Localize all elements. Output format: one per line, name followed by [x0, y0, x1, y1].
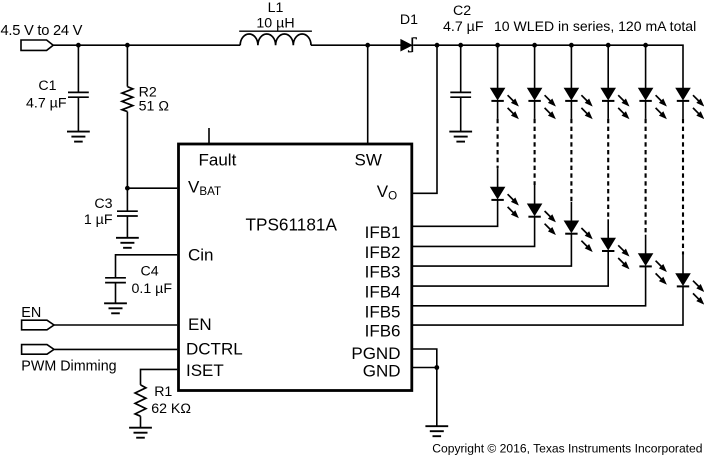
wire top rail left (VIN to L1): [53, 44, 240, 46]
wire string 1 below upper LED: [497, 101, 499, 119]
net VIN input connector: [21, 40, 53, 50]
capacitor C3: [117, 211, 138, 216]
wire top rail mid (L1 to D1): [311, 44, 401, 46]
LED string 2 upper: [528, 88, 555, 118]
junction WLED string 2: [532, 43, 537, 48]
wire string 2 dashed (hidden LEDs): [534, 119, 536, 185]
wire string 4 to IFB4: [412, 251, 608, 286]
LED string 5 lower: [639, 254, 666, 284]
wire string 6 above lower LED: [682, 255, 684, 274]
wire PGND pin: [412, 349, 437, 368]
capacitor C2: [450, 92, 471, 97]
junction VO tap: [435, 43, 440, 48]
LED string 3 upper: [565, 88, 592, 118]
svg-text:IFB3: IFB3: [365, 263, 401, 282]
junction WLED string 5: [643, 43, 648, 48]
op-amp U1 TPS61181A body: [179, 144, 412, 391]
wire string 6 dashed (hidden LEDs): [682, 119, 684, 255]
wire string 4 above lower LED: [607, 219, 609, 238]
svg-text:PWM Dimming: PWM Dimming: [21, 358, 116, 374]
wire string 2 from rail: [534, 45, 536, 88]
resistor R1: [135, 385, 146, 416]
wire string 3 above lower LED: [570, 202, 572, 221]
wire string 3 to IFB3: [412, 234, 572, 266]
wire C3 branch: [126, 188, 128, 211]
wire string 2 to IFB2: [412, 217, 535, 247]
ground (R1): [129, 428, 152, 438]
wire C2 branch: [460, 45, 462, 92]
svg-text:DCTRL: DCTRL: [186, 339, 243, 358]
svg-text:4.7 µF: 4.7 µF: [443, 19, 484, 35]
LED string 1 lower: [491, 187, 518, 217]
junction WLED string 3: [569, 43, 574, 48]
LED string 6 lower: [676, 274, 703, 304]
wire string 1 from rail: [497, 45, 499, 88]
wire top rail right (D1 to WLED strings) with corner down: [413, 45, 683, 88]
LED string 4 upper: [601, 88, 628, 118]
wire VBAT pin: [127, 187, 177, 189]
svg-text:C1: C1: [38, 78, 56, 94]
wire C2 to ground: [460, 97, 462, 131]
svg-text:GND: GND: [363, 361, 401, 380]
svg-text:PGND: PGND: [351, 344, 400, 363]
wire DCTRL pin: [54, 348, 177, 350]
svg-text:D1: D1: [400, 12, 418, 28]
wire ISET pin: [141, 369, 178, 385]
svg-text:ISET: ISET: [186, 361, 224, 380]
wire string 2 above lower LED: [534, 185, 536, 204]
ground (PGND/GND): [425, 426, 448, 436]
svg-text:10 WLED in series, 120 mA tota: 10 WLED in series, 120 mA total: [494, 18, 696, 34]
svg-text:62 KΩ: 62 KΩ: [151, 401, 191, 417]
inductor L1: [239, 31, 312, 45]
wire string 5 dashed (hidden LEDs): [645, 119, 647, 235]
junction SW tap: [365, 43, 370, 48]
svg-text:C2: C2: [453, 3, 471, 19]
resistor R2: [122, 87, 133, 112]
wire string 3 dashed (hidden LEDs): [570, 119, 572, 202]
wire SW pin to rail: [367, 45, 369, 144]
svg-text:Copyright © 2016, Texas Instru: Copyright © 2016, Texas Instruments Inco…: [432, 441, 702, 455]
svg-text:IFB5: IFB5: [365, 302, 401, 321]
junction VIN/C1: [76, 43, 81, 48]
junction WLED string 4: [606, 43, 611, 48]
LED string 6 upper: [676, 88, 703, 118]
pin Fault stub: [208, 128, 210, 144]
svg-text:4.5 V to 24 V: 4.5 V to 24 V: [1, 23, 83, 39]
junction C2 tap: [458, 43, 463, 48]
wire string 5 above lower LED: [645, 235, 647, 254]
svg-text:R1: R1: [154, 384, 172, 400]
wire R2 to VBAT node: [126, 112, 128, 189]
wire string 4 dashed (hidden LEDs): [607, 119, 609, 220]
svg-text:EN: EN: [188, 315, 212, 334]
wire string 1 dashed (hidden LEDs): [497, 119, 499, 168]
wire string 2 below upper LED: [534, 101, 536, 119]
LED string 2 lower: [528, 204, 555, 234]
svg-text:Cin: Cin: [188, 245, 214, 264]
junction PGND/GND: [434, 365, 439, 370]
wire EN pin: [54, 324, 177, 326]
wire string 5 to IFB5: [412, 266, 646, 305]
wire string 6 below upper LED: [682, 101, 684, 119]
wire C1 branch: [77, 45, 79, 92]
svg-text:IFB1: IFB1: [365, 223, 401, 242]
ground (C2): [449, 132, 472, 142]
net PWM input connector: [22, 345, 54, 355]
wire Cin pin: [116, 255, 178, 278]
wire GND pin: [412, 367, 437, 369]
junction R2 tap: [125, 43, 130, 48]
wire C1 to ground: [77, 97, 79, 131]
net EN input connector: [22, 320, 54, 330]
svg-text:IFB4: IFB4: [365, 283, 401, 302]
wire string 5 from rail: [645, 45, 647, 88]
svg-text:C4: C4: [141, 263, 159, 279]
LED string 4 lower: [601, 238, 628, 268]
svg-text:EN: EN: [21, 305, 41, 321]
wire string 5 below upper LED: [645, 101, 647, 119]
wire GND to ground: [436, 368, 438, 427]
wire C3 to ground: [126, 216, 128, 238]
wire string 3 below upper LED: [570, 101, 572, 119]
junction WLED string 1: [495, 43, 500, 48]
svg-text:Fault: Fault: [199, 150, 237, 169]
svg-text:C3: C3: [94, 196, 112, 212]
wire R1 to ground: [140, 416, 142, 428]
wire rail to R2: [126, 45, 128, 86]
capacitor C1: [68, 92, 89, 97]
svg-text:IFB2: IFB2: [365, 243, 401, 262]
ground (C1): [67, 132, 90, 142]
wire VO pin to rail: [412, 45, 437, 193]
ground (C3): [116, 238, 139, 248]
svg-text:10 µH: 10 µH: [256, 16, 294, 32]
svg-text:IFB6: IFB6: [365, 322, 401, 341]
wire string 4 from rail: [607, 45, 609, 88]
LED string 1 upper: [491, 88, 518, 118]
LED string 3 lower: [565, 221, 592, 251]
wire string 3 from rail: [570, 45, 572, 88]
capacitor C4: [105, 278, 126, 283]
svg-text:SW: SW: [355, 150, 382, 169]
wire C4 to ground: [115, 283, 117, 304]
svg-text:L1: L1: [268, 0, 284, 16]
svg-text:TPS61181A: TPS61181A: [246, 215, 338, 235]
svg-text:1 µF: 1 µF: [84, 212, 113, 228]
svg-text:51 Ω: 51 Ω: [139, 99, 169, 115]
diode D1 (schottky): [401, 38, 416, 53]
wire string 6 to IFB6: [412, 286, 683, 325]
junction VBAT/C3 node: [125, 186, 130, 191]
wire string 1 to IFB1: [412, 200, 498, 226]
svg-text:0.1 µF: 0.1 µF: [132, 281, 173, 297]
LED string 5 upper: [639, 88, 666, 118]
wire string 4 below upper LED: [607, 101, 609, 119]
svg-text:4.7 µF: 4.7 µF: [26, 95, 67, 111]
wire string 1 above lower LED: [497, 168, 499, 187]
ground (C4): [104, 303, 127, 313]
